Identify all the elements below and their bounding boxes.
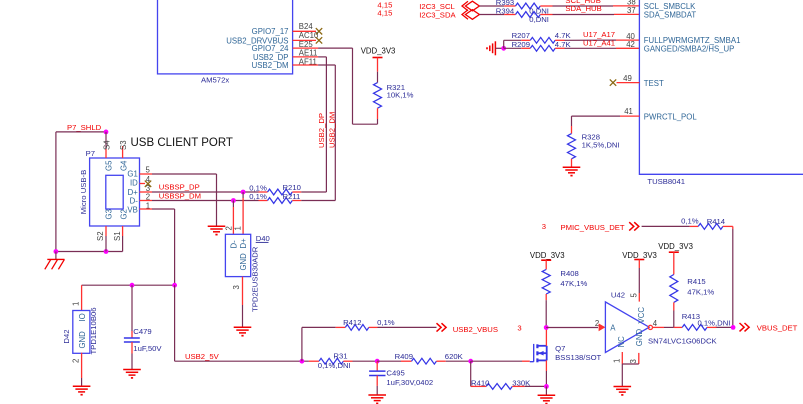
svg-text:D40: D40: [256, 234, 270, 243]
wire Q7 drain: [545, 328, 547, 346]
resistor R410: [471, 385, 487, 387]
svg-text:USB2_DM: USB2_DM: [328, 112, 337, 148]
svg-text:47K,1%: 47K,1%: [560, 279, 587, 288]
svg-text:AC10: AC10: [299, 31, 319, 40]
svg-text:4.7K: 4.7K: [555, 31, 572, 40]
esd diode D40 box: [225, 234, 250, 276]
resistor R207: [521, 39, 530, 41]
buffer U42 triangle: [605, 302, 649, 353]
svg-text:R412: R412: [343, 318, 361, 327]
wire to R414: [642, 225, 690, 227]
svg-text:SDA_HUB: SDA_HUB: [565, 4, 601, 13]
wire R207 to pin 40: [565, 39, 617, 41]
capacitor C495: [376, 361, 378, 371]
resistor R412: [336, 326, 346, 328]
svg-text:0,1%: 0,1%: [249, 192, 267, 201]
no-connect X on pin B24: [316, 28, 322, 34]
IC U1 AM572x box: [158, 0, 293, 74]
wire R31 to C495 node: [353, 360, 378, 362]
IC TUSB8041 box: [639, 0, 803, 174]
svg-text:D+: D+: [239, 238, 248, 249]
svg-text:TPD1E10B06: TPD1E10B06: [89, 307, 98, 354]
svg-text:R207: R207: [512, 31, 530, 40]
wire GPIO7_24 to R321: [318, 47, 352, 49]
svg-text:USBSP_DP: USBSP_DP: [159, 183, 200, 192]
svg-text:ID: ID: [130, 179, 138, 188]
junction D40 pin2 on DM: [231, 198, 236, 203]
svg-text:VDD_3V3: VDD_3V3: [530, 251, 565, 260]
svg-text:G5: G5: [105, 160, 114, 171]
svg-text:VCC: VCC: [637, 307, 646, 324]
svg-text:1: 1: [72, 302, 81, 306]
connector P7 inner shield rect: [106, 175, 123, 209]
svg-text:G3: G3: [105, 209, 114, 219]
ground left-rotated at R207/R209: [494, 41, 496, 55]
wire R412 to off-page: [378, 326, 437, 328]
wire R409 to gate node: [446, 360, 471, 362]
svg-text:5: 5: [146, 166, 151, 175]
svg-text:R409: R409: [395, 352, 413, 361]
svg-text:2: 2: [595, 319, 599, 328]
svg-text:B24: B24: [299, 22, 314, 31]
pin 40 FULLPWRMGMTZ_SMBA1 of TUSB8041: [616, 39, 639, 41]
wire gnd to R207: [503, 40, 505, 48]
svg-text:R410: R410: [471, 379, 489, 388]
wire SCL to R393: [480, 5, 505, 7]
pin 42 GANGED/SMBA2/HS_UP of TUSB8041: [616, 47, 639, 49]
resistor R394: [504, 14, 515, 16]
ground under Q7: [538, 394, 556, 396]
junction C495 tap: [375, 359, 380, 364]
svg-text:R210: R210: [283, 183, 301, 192]
ground under R328: [563, 166, 581, 168]
wire P7_SHLD shield net: [56, 131, 106, 133]
svg-text:3: 3: [232, 285, 241, 289]
svg-text:SN74LVC1G06DCK: SN74LVC1G06DCK: [648, 336, 718, 345]
svg-text:1: 1: [613, 359, 622, 363]
svg-text:S1: S1: [113, 231, 122, 241]
svg-text:VB: VB: [127, 205, 137, 214]
wire USB2_DP vertical: [318, 56, 326, 58]
wire U42 gnd pins: [622, 363, 639, 365]
svg-text:0,1%,DNI: 0,1%,DNI: [698, 319, 731, 328]
svg-text:4.7K: 4.7K: [555, 40, 572, 49]
svg-text:620K: 620K: [445, 352, 464, 361]
transistor Q7 BSS138: [530, 361, 534, 363]
resistor R415: [670, 275, 678, 303]
svg-text:USB CLIENT PORT: USB CLIENT PORT: [131, 137, 233, 149]
svg-text:A: A: [610, 323, 616, 332]
svg-text:GND: GND: [635, 329, 644, 347]
svg-text:R415: R415: [687, 277, 705, 286]
wire R210 to USB2_DP: [301, 191, 326, 193]
svg-text:TPD2EUSB30ADR: TPD2EUSB30ADR: [250, 246, 259, 312]
resistor R414: [690, 225, 699, 227]
connector P7 Micro USB-B outer box: [90, 158, 140, 226]
junction S4 shield: [104, 130, 109, 135]
svg-text:R211: R211: [283, 192, 301, 201]
wire up to R412: [301, 327, 303, 361]
wire G1 to ground: [152, 173, 217, 175]
wire SCL_HUB to pin 38: [553, 5, 614, 7]
svg-text:2: 2: [71, 359, 80, 363]
wire down to R410: [470, 361, 472, 386]
ground under D40: [234, 326, 252, 328]
svg-text:USB2_DP: USB2_DP: [317, 113, 326, 148]
esd diode D42 pin 1: [81, 285, 83, 310]
svg-text:R209: R209: [512, 40, 530, 49]
junction Q7 source / R410: [544, 384, 549, 389]
svg-text:Q7: Q7: [555, 344, 565, 353]
svg-text:37: 37: [627, 6, 636, 15]
svg-text:3: 3: [517, 324, 521, 333]
resistor R31: [309, 360, 319, 362]
junction S2 shield: [104, 249, 109, 254]
svg-text:2: 2: [224, 226, 233, 230]
off-page connector USB2_VBUS: [437, 323, 447, 331]
wire R413 to VBUS_DET node: [717, 326, 734, 328]
svg-text:GPIO7_24: GPIO7_24: [252, 44, 290, 53]
svg-text:U17_A41: U17_A41: [583, 38, 615, 47]
svg-text:GND: GND: [239, 253, 248, 271]
wire R328 to pin 41: [571, 116, 573, 126]
wire SDA to R394: [480, 14, 505, 16]
svg-text:S4: S4: [103, 140, 112, 150]
pin 41 PWRCTL_POL of TUSB8041: [620, 115, 639, 117]
svg-text:BSS138/SOT: BSS138/SOT: [555, 353, 601, 362]
junction C479 tap: [130, 283, 135, 288]
wire U42 output to R413: [653, 326, 664, 328]
svg-text:S3: S3: [119, 140, 128, 150]
svg-text:3: 3: [542, 222, 546, 231]
svg-text:USB2_DM: USB2_DM: [252, 61, 289, 70]
svg-text:TUSB8041: TUSB8041: [647, 177, 685, 186]
resistor R413: [674, 326, 682, 328]
chassis ground symbol: [55, 252, 57, 260]
svg-text:I2C3_SDA: I2C3_SDA: [419, 11, 456, 20]
svg-text:1K,5%,DNI: 1K,5%,DNI: [582, 140, 620, 149]
wire R211 to USB2_DM: [301, 200, 335, 202]
svg-text:R408: R408: [560, 269, 578, 278]
pin S1 stub: [122, 226, 124, 236]
junction D40 pin1 on DP: [241, 190, 246, 195]
wire DP to D40 pin 1: [242, 192, 244, 198]
svg-text:R394: R394: [496, 7, 515, 16]
no-connect X on pin 4: [145, 181, 151, 187]
resistor R210: [259, 191, 268, 193]
svg-text:0,1%: 0,1%: [681, 217, 699, 226]
svg-text:C479: C479: [133, 327, 151, 336]
junction VBUS_DET node: [731, 325, 736, 330]
output bubble of U42: [648, 325, 652, 329]
svg-text:USBSP_DM: USBSP_DM: [159, 192, 201, 201]
pin 3 of D40: [242, 277, 244, 305]
svg-text:10K,1%: 10K,1%: [387, 91, 414, 100]
svg-text:GPIO7_17: GPIO7_17: [252, 27, 289, 36]
svg-text:GND: GND: [78, 331, 87, 349]
wire DM to D40 pin 2: [232, 201, 234, 208]
wire USBSP_DM to R211: [152, 200, 259, 202]
svg-text:VBUS_DET: VBUS_DET: [757, 323, 798, 332]
wire gate node to Q7 gate: [471, 360, 522, 362]
svg-text:42: 42: [626, 40, 635, 49]
svg-text:U42: U42: [611, 291, 625, 300]
svg-text:0,1%: 0,1%: [377, 318, 395, 327]
svg-text:GANGED/SMBA2/HS_UP: GANGED/SMBA2/HS_UP: [644, 44, 735, 53]
svg-text:G1: G1: [127, 170, 137, 179]
wire USB2_5V: [175, 360, 309, 362]
svg-text:D+: D+: [128, 188, 139, 197]
ground under D42: [73, 385, 91, 387]
svg-text:NC: NC: [617, 336, 626, 348]
ground at G1: [208, 225, 226, 227]
wire VB down to USB2_5V: [152, 208, 175, 210]
svg-text:R31: R31: [333, 352, 347, 361]
svg-text:0,1%,DNI: 0,1%,DNI: [318, 361, 351, 370]
svg-text:PWRCTL_POL: PWRCTL_POL: [644, 113, 698, 122]
svg-text:AM572x: AM572x: [201, 75, 229, 84]
svg-text:Micro USB-B: Micro USB-B: [79, 170, 88, 214]
svg-text:D-: D-: [229, 240, 238, 249]
junction gate/R410 node: [468, 359, 473, 364]
svg-text:47K,1%: 47K,1%: [687, 288, 714, 297]
svg-text:5: 5: [630, 293, 639, 298]
svg-text:P7: P7: [86, 149, 95, 158]
pin S3 stub: [122, 146, 124, 158]
svg-text:D42: D42: [62, 329, 71, 343]
svg-text:49: 49: [623, 74, 632, 83]
svg-text:VDD_3V3: VDD_3V3: [361, 47, 396, 56]
svg-text:R414: R414: [707, 217, 726, 226]
no-connect X on pin AC10: [316, 37, 322, 43]
pin 1 of U42: [621, 352, 623, 364]
pin 2 of D42: [81, 353, 83, 378]
svg-text:IO: IO: [78, 313, 87, 321]
junction R408/Q7/U42 input: [544, 325, 549, 330]
wire SDA_HUB to pin 37: [553, 14, 615, 16]
pin 3 of U42: [638, 353, 640, 364]
ground under C479: [123, 369, 141, 371]
resistor R328: [568, 134, 576, 159]
wire to U42 input: [546, 327, 598, 329]
wire R415 to output line: [673, 302, 675, 310]
svg-text:USB2_VBUS: USB2_VBUS: [453, 325, 498, 334]
svg-text:S2: S2: [96, 231, 105, 241]
pin S2 stub: [105, 226, 107, 236]
pin 49 TEST of TUSB8041: [610, 79, 616, 85]
wire R410 to Q7 source node: [525, 385, 547, 387]
wire USBSP_DP to R210: [152, 191, 259, 193]
svg-text:4,15: 4,15: [377, 9, 392, 18]
ground under U42: [614, 386, 632, 388]
wire Q7 source: [545, 360, 547, 371]
wire R209 to pin 42: [565, 47, 617, 49]
wire VB node to D42/C479: [82, 284, 175, 286]
junction corner left-bottom: [54, 249, 59, 254]
svg-text:41: 41: [624, 107, 633, 116]
svg-text:0,DNI: 0,DNI: [529, 15, 549, 24]
esd diode D42 box: [73, 311, 90, 354]
junction R412 branch: [300, 359, 305, 364]
resistor R209: [504, 47, 522, 49]
junction node R207/R209 gnd: [501, 46, 506, 51]
resistor R321: [374, 83, 382, 109]
svg-text:USB2_5V: USB2_5V: [185, 352, 220, 361]
wire R414 down to VBUS_DET node: [732, 226, 734, 229]
svg-text:TEST: TEST: [644, 79, 664, 88]
wire R408 to drain node: [545, 294, 547, 300]
resistor R211: [259, 200, 268, 202]
svg-text:3: 3: [629, 359, 638, 363]
ground under C495: [368, 394, 386, 396]
svg-text:1: 1: [234, 226, 243, 230]
junction VB vertical: [172, 283, 177, 288]
svg-text:1uF,50V: 1uF,50V: [133, 344, 162, 353]
wire USB2_DM vertical: [318, 64, 335, 66]
pin S4 stub: [105, 149, 107, 158]
pin 37 SDA_SMBDAT of TUSB8041: [614, 13, 639, 15]
resistor R393: [504, 5, 515, 7]
svg-text:SDA_SMBDAT: SDA_SMBDAT: [644, 10, 697, 19]
svg-text:P7_SHLD: P7_SHLD: [67, 123, 102, 132]
off-page connector PMIC_VBUS_DET: [629, 222, 639, 230]
svg-text:VDD_3V3: VDD_3V3: [658, 242, 693, 251]
svg-text:PMIC_VBUS_DET: PMIC_VBUS_DET: [561, 223, 625, 232]
svg-text:C495: C495: [386, 368, 404, 377]
resistor R408: [542, 269, 550, 294]
wire down to USB2_5V line: [174, 285, 176, 361]
capacitor C479: [131, 285, 133, 331]
resistor R409: [377, 360, 401, 362]
off-page connector VBUS_DET: [740, 323, 750, 331]
pin 38 SCL_SMBCLK of TUSB8041: [613, 5, 639, 7]
svg-text:1uF,30V,0402: 1uF,30V,0402: [386, 378, 433, 387]
